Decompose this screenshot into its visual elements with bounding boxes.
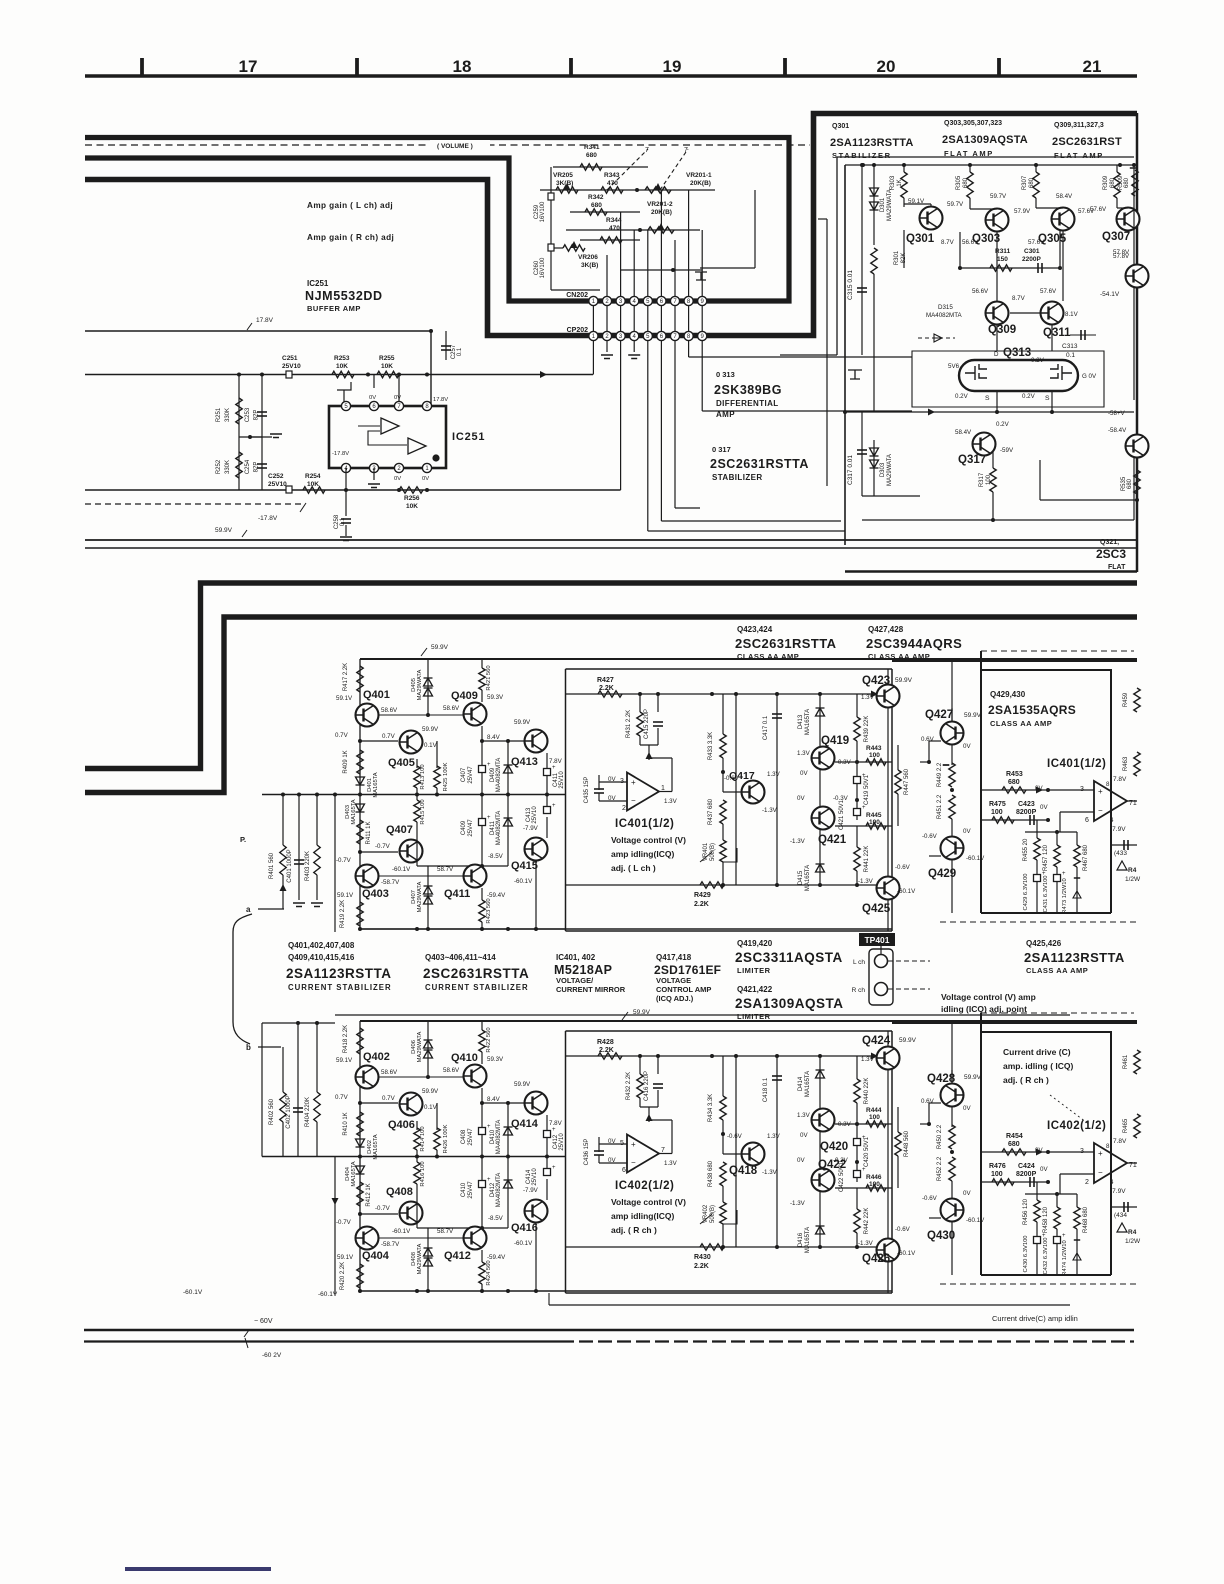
svg-text:MA29WATA: MA29WATA [417,881,423,912]
svg-text:Q427,428: Q427,428 [868,625,904,634]
svg-text:R423 560: R423 560 [486,898,492,923]
svg-text:56.6V: 56.6V [962,239,979,246]
svg-text:−: − [631,796,636,805]
op amp output wire [659,791,672,793]
sub box right edge [891,669,893,931]
svg-text:R418 2.2K: R418 2.2K [343,1025,349,1053]
R455/R457/R467 cluster [1036,1182,1038,1200]
svg-text:59.1V: 59.1V [336,1057,353,1064]
svg-text:-0.6V: -0.6V [895,1226,911,1233]
svg-text:Amp gain ( R ch) adj: Amp gain ( R ch) adj [307,233,394,242]
svg-text:Q409: Q409 [451,690,478,702]
svg-text:C313: C313 [1062,343,1078,350]
CN202 pin 7 [670,296,679,305]
R535 680 [1134,470,1140,494]
svg-text:Q403~406,411~414: Q403~406,411~414 [425,953,496,962]
svg-text:CURRENT STABILIZER: CURRENT STABILIZER [425,983,529,992]
svg-text:C402 1000P: C402 1000P [286,1095,292,1128]
svg-text:0.1: 0.1 [340,517,346,526]
CP202 pin 4 [630,331,639,340]
svg-text:Q405: Q405 [388,757,415,769]
CN202 pin 5 [643,296,652,305]
D301 MA29WATA [873,165,875,245]
svg-text:2: 2 [1085,1179,1089,1186]
svg-text:R422 560: R422 560 [486,1027,492,1052]
R449/R451 [951,708,953,765]
svg-text:500(B): 500(B) [710,1205,716,1223]
svg-text:(ICQ ADJ.): (ICQ ADJ.) [656,994,694,1003]
svg-text:-60.1V: -60.1V [966,855,985,862]
ruler tick [997,58,1001,76]
pin column wire [647,301,649,336]
D407 [427,1228,429,1291]
svg-text:0V: 0V [963,828,971,835]
svg-text:R475: R475 [989,801,1006,808]
wire x736 [735,694,737,885]
svg-text:Q419: Q419 [821,735,849,747]
svg-text:-60.1V: -60.1V [897,888,916,895]
svg-text:MA29WATA: MA29WATA [887,189,893,221]
svg-text:FLAT: FLAT [1108,564,1126,571]
svg-text:(433: (433 [1114,850,1127,857]
R447 560 [897,1124,899,1132]
svg-text:D414: D414 [798,1076,804,1091]
svg-text:59.9V: 59.9V [895,677,913,684]
sub box IC401(1/2) [566,669,893,931]
svg-text:57.6V: 57.6V [1028,239,1045,246]
svg-text:82P: 82P [254,462,260,473]
svg-text:-1.3V: -1.3V [858,1240,874,1247]
svg-text:-59V: -59V [1000,447,1014,454]
pin column wire [606,301,608,336]
R423 560 [481,888,483,900]
volume dashed diagonals [607,149,648,190]
svg-text:-59.4V: -59.4V [487,1254,506,1261]
svg-text:0.6V: 0.6V [921,736,935,743]
svg-text:-60.1V: -60.1V [392,1228,411,1235]
R423 560 [481,1250,483,1262]
pin column wire [701,301,703,336]
svg-text:25V10: 25V10 [559,1133,565,1151]
svg-text:R254: R254 [305,473,321,480]
D413 / limiters [819,1056,821,1247]
svg-text:0V: 0V [1040,804,1048,811]
R419 2.2K [357,1264,363,1288]
op amp [627,1135,659,1173]
svg-text:C315 0.01: C315 0.01 [847,270,854,300]
main vertical wire x845 [844,165,846,545]
svg-text:Q421,422: Q421,422 [737,985,773,994]
R431 2.2K / C415 220P [639,694,641,712]
Q427 [941,1084,964,1107]
svg-text:Q309: Q309 [988,324,1016,336]
bottom bus [566,1246,893,1248]
R409 1K [357,750,363,774]
gnd hook in VR box [695,272,707,280]
svg-text:0V: 0V [800,1132,808,1139]
Rch outer box top [335,1014,1070,1016]
svg-text:2SA1535AQRS: 2SA1535AQRS [988,703,1076,717]
CN202 pin 8 [684,296,693,305]
svg-text:Q404: Q404 [362,1250,390,1262]
svg-text:P.: P. [240,835,246,844]
block rails dy=362 [359,1021,361,1291]
TP401 test point [859,933,895,946]
svg-text:R455 20: R455 20 [1023,838,1029,861]
R307 680 [1035,165,1037,172]
svg-text:Q423,424: Q423,424 [737,625,773,634]
svg-text:Q408: Q408 [386,1186,413,1198]
svg-text:C252: C252 [268,473,284,480]
svg-text:R404 220K: R404 220K [305,1097,311,1127]
svg-text:+: + [552,765,556,771]
svg-text:R451 2.2: R451 2.2 [937,794,943,819]
svg-text:S: S [985,395,990,402]
svg-text:D415: D415 [798,870,804,885]
C409 / D411 [481,795,483,867]
svg-text:−: − [1098,1168,1103,1177]
svg-text:16V100: 16V100 [540,257,546,278]
svg-text:R428: R428 [597,1039,614,1046]
svg-text:IC401, 402: IC401, 402 [556,953,596,962]
svg-text:Q317: Q317 [958,454,986,466]
Q429 [941,837,964,860]
svg-text:680: 680 [1110,177,1116,188]
svg-text:R415 100: R415 100 [420,799,426,824]
svg-text:IC401(1/2): IC401(1/2) [615,818,674,830]
svg-text:470: 470 [609,225,620,232]
R449/R451 [951,1070,953,1127]
svg-text:680: 680 [1124,177,1130,188]
D303 MA29WATA [873,440,875,496]
svg-text:1.3V: 1.3V [797,750,811,757]
R301 82K [871,248,877,274]
svg-text:0.2V: 0.2V [996,421,1010,428]
dashed VOLUME link line [85,144,810,146]
wires Q-columns [996,232,998,301]
R455/R457/R467 cluster [1036,820,1038,838]
svg-text:MA165TA: MA165TA [373,772,379,797]
svg-text:0V: 0V [963,1190,971,1197]
svg-text:5V6: 5V6 [948,363,960,370]
R417 2.2K [357,1028,363,1054]
svg-text:Q411: Q411 [444,888,470,900]
svg-text:7.8V: 7.8V [1113,1138,1127,1145]
svg-text:C254: C254 [245,459,251,474]
R417 2.2K [357,666,363,692]
svg-text:amp idling(ICQ): amp idling(ICQ) [611,1211,674,1221]
svg-text:2.2K: 2.2K [694,901,709,908]
svg-text:0V: 0V [394,476,401,482]
CP202 pin 5 [643,331,652,340]
svg-text:Q403: Q403 [362,888,389,900]
svg-text:100: 100 [869,752,880,759]
svg-text:Amp gain ( L ch) adj: Amp gain ( L ch) adj [307,201,393,210]
svg-text:680: 680 [1127,478,1133,489]
sub box IC402(1/2) [566,1031,893,1293]
svg-text:C408: C408 [461,1129,467,1144]
svg-text:-0.6V: -0.6V [922,1195,938,1202]
svg-text:R252: R252 [216,459,222,474]
svg-text:0V: 0V [800,770,808,777]
bottom dots [358,927,362,931]
svg-text:R445: R445 [866,812,882,819]
svg-text:Q313: Q313 [1003,347,1031,359]
svg-text:Q303,305,307,323: Q303,305,307,323 [944,120,1002,127]
svg-text:-17.8V: -17.8V [332,451,349,457]
svg-text:82P: 82P [254,410,260,421]
svg-text:20K(B): 20K(B) [690,180,711,187]
svg-text:8200P: 8200P [1016,1171,1037,1178]
svg-text:0V: 0V [797,795,805,802]
svg-text:0.1V: 0.1V [424,742,438,749]
svg-text:MA4082MTA: MA4082MTA [926,312,963,319]
svg-text:R458 120: R458 120 [1043,1206,1049,1233]
svg-text:25V10: 25V10 [532,806,538,824]
D413 / limiters [819,694,821,885]
svg-text:25V10: 25V10 [559,771,565,789]
svg-text:R426 100K: R426 100K [443,1124,449,1153]
svg-text:Q307: Q307 [1102,231,1130,243]
svg-text:17: 17 [239,57,258,76]
right inner wire [1133,165,1135,400]
svg-text:Q401,402,407,408: Q401,402,407,408 [288,941,355,950]
svg-text:100: 100 [869,819,880,826]
svg-text:19: 19 [663,57,682,76]
svg-text:21: 21 [1083,57,1102,76]
svg-text:330K: 330K [225,408,231,422]
C419 C421 [856,1124,858,1162]
svg-text:R4: R4 [1128,1229,1137,1236]
svg-text:500(B): 500(B) [710,843,716,861]
svg-text:R412 1K: R412 1K [366,1183,372,1206]
svg-text:R443: R443 [866,745,882,752]
svg-text:Q423: Q423 [862,675,890,687]
svg-text:58.4V: 58.4V [1056,193,1073,200]
R402 560 / C402 1000P / R404 220K [282,1047,284,1092]
svg-text:10K: 10K [406,503,418,510]
svg-text:MA4082MTA: MA4082MTA [496,1173,502,1208]
svg-text:-58.7V: -58.7V [381,879,400,886]
svg-text:STABILIZER: STABILIZER [832,151,892,160]
svg-text:C301: C301 [1024,248,1040,255]
svg-text:+: + [487,762,491,768]
svg-text:680: 680 [963,177,969,188]
C257 0.1 [445,331,447,360]
svg-text:59.1V: 59.1V [337,892,354,899]
svg-text:-0.7V: -0.7V [336,857,352,864]
svg-text:R448 560: R448 560 [904,1130,910,1157]
R433 / R437 column [722,1056,724,1096]
svg-text:2SC3311AQSTA: 2SC3311AQSTA [735,950,843,965]
op-amp symbols inside IC251 [381,418,399,434]
svg-text:CP202: CP202 [567,327,589,334]
bottom line -60.2V solid part [84,1340,560,1342]
svg-text:-1.3V: -1.3V [790,838,806,845]
svg-text:MA165TA: MA165TA [805,709,811,735]
svg-text:59.9V: 59.9V [431,644,449,651]
svg-text:C419 50V1: C419 50V1 [864,774,870,805]
svg-text:R344: R344 [606,217,622,224]
svg-text:57.9V: 57.9V [1014,208,1031,215]
svg-text:a: a [246,905,251,914]
svg-text:R307: R307 [1022,175,1028,190]
svg-text:R438 680: R438 680 [708,1160,714,1187]
right column box dy=362 [981,1013,1111,1275]
svg-text:-54.1V: -54.1V [1100,291,1120,298]
svg-text:Q429,430: Q429,430 [990,690,1026,699]
svg-text:MA29WATA: MA29WATA [417,1243,423,1274]
svg-text:-60.1V: -60.1V [318,1291,338,1298]
svg-text:−: − [631,1158,636,1167]
svg-text:R301: R301 [894,250,900,265]
svg-text:-7.9V: -7.9V [523,1187,539,1194]
svg-text:2SA1123RSTTA: 2SA1123RSTTA [286,966,392,981]
svg-text:Q407: Q407 [386,824,413,836]
svg-text:R432 2.2K: R432 2.2K [626,1072,632,1100]
svg-text:59.9V: 59.9V [514,719,531,726]
svg-text:680: 680 [1008,779,1020,786]
thick signal bus B (CP202 to flat-amp block) [85,114,1137,336]
svg-text:CLASS AA AMP: CLASS AA AMP [737,652,799,661]
jfet right [1050,364,1072,380]
feedback loop [1047,1182,1049,1202]
svg-text:R403 220K: R403 220K [305,851,311,881]
svg-text:R433 3.3K: R433 3.3K [708,732,714,760]
svg-text:LIMITER: LIMITER [737,966,771,975]
svg-text:MA165TA: MA165TA [373,1134,379,1159]
svg-text:Q410: Q410 [451,1052,478,1064]
flat-amp block bottom border [845,570,1137,573]
svg-text:C415 220P: C415 220P [644,709,650,739]
svg-text:Q427: Q427 [925,709,953,721]
R305 680 [969,165,971,172]
svg-text:D315: D315 [938,304,953,311]
svg-text:680: 680 [1008,1141,1020,1148]
svg-text:Q401: Q401 [363,689,390,701]
svg-text:2SA1309AQSTA: 2SA1309AQSTA [942,134,1028,146]
svg-text:6: 6 [622,1167,626,1174]
svg-text:1.3V: 1.3V [861,694,875,701]
svg-text:C429 6.3V100: C429 6.3V100 [1023,873,1029,910]
svg-text:-58.7V: -58.7V [381,1241,400,1248]
svg-text:2SC2631RSTTA: 2SC2631RSTTA [710,457,809,471]
Q419 Q421 [812,747,835,770]
separator line 1 [85,539,1137,541]
C258 0.1 [345,490,347,516]
svg-text:1K: 1K [897,179,903,186]
svg-text:( VOLUME ): ( VOLUME ) [437,143,473,150]
Q423/Q425 right [891,669,893,694]
svg-text:-7.9V: -7.9V [1110,826,1126,833]
svg-text:CLASS AA AMP: CLASS AA AMP [1026,966,1088,975]
svg-text:R453: R453 [1006,771,1023,778]
C407 / D409 [481,741,483,795]
svg-text:MA29WATA: MA29WATA [887,454,893,486]
Q311 [1041,302,1064,325]
svg-text:R420 2.2K: R420 2.2K [340,1262,346,1290]
svg-text:+: + [552,1165,556,1171]
ruler tick [783,58,787,76]
R431 2.2K / C415 220P [639,1056,641,1074]
svg-text:58.6V: 58.6V [443,705,460,712]
Rch top rail 59.9V [360,1020,1137,1022]
svg-text:-60.1V: -60.1V [392,866,411,873]
Q317 [973,433,996,456]
svg-text:25V47: 25V47 [468,819,474,837]
svg-text:8.7V: 8.7V [941,239,955,246]
svg-text:R461: R461 [1123,1054,1129,1069]
svg-text:2SA1123RSTTA: 2SA1123RSTTA [830,137,914,149]
svg-text:1.3V: 1.3V [797,1112,811,1119]
collector bend wires [904,203,931,205]
svg-text:100: 100 [986,474,992,485]
Q303 [986,209,1009,232]
svg-text:Q416: Q416 [511,1222,538,1234]
svg-text:25V47: 25V47 [468,1128,474,1146]
R425 100K [436,741,438,768]
svg-text:R409 1K: R409 1K [343,750,349,773]
svg-text:Q417,418: Q417,418 [656,953,692,962]
svg-text:+: + [1098,787,1103,796]
svg-text:R424 560: R424 560 [486,1260,492,1285]
svg-text:DIFFERENTIAL: DIFFERENTIAL [716,399,779,408]
R401 560 / C401 1000P / R403 220K [282,795,284,846]
Q427 [941,722,964,745]
Q307 [1117,208,1140,231]
svg-text:17.8V: 17.8V [433,397,448,403]
svg-text:C253: C253 [245,407,251,422]
inner left vertical wire [826,219,828,486]
svg-text:58.6V: 58.6V [381,707,398,714]
svg-text:MA165TA: MA165TA [805,1071,811,1097]
CP202 pin 3 [616,331,625,340]
svg-text:FLAT AMP: FLAT AMP [1054,151,1104,160]
svg-text:0V: 0V [963,1105,971,1112]
svg-text:C410: C410 [461,1182,467,1197]
svg-text:0.7V: 0.7V [382,1095,396,1102]
svg-text:R473 1/2W10: R473 1/2W10 [1062,878,1068,913]
mid rail Rch [262,1156,566,1158]
svg-text:+: + [487,1177,491,1183]
thick signal bus loop A (CN202) [85,138,789,302]
svg-text:R411 1K: R411 1K [366,822,372,845]
svg-text:0.2V: 0.2V [1031,357,1045,364]
svg-text:MA165TA: MA165TA [805,1227,811,1253]
R317 100 [992,452,994,468]
svg-text:16V100: 16V100 [540,201,546,222]
svg-text:59.9V: 59.9V [422,1088,439,1095]
svg-text:+: + [487,1124,491,1130]
svg-text:C317 0.01: C317 0.01 [847,455,854,485]
svg-text:Q412: Q412 [444,1250,471,1262]
block rails dy=0 [359,659,361,929]
svg-text:58.7V: 58.7V [437,866,454,873]
svg-text:25V10: 25V10 [282,363,301,370]
svg-text:C436 15P: C436 15P [584,1139,590,1166]
svg-text:MA4082MTA: MA4082MTA [496,811,502,846]
svg-text:BUFFER AMP: BUFFER AMP [307,304,361,313]
svg-text:R446: R446 [866,1174,882,1181]
svg-text:CN202: CN202 [566,292,588,299]
svg-text:R253: R253 [334,355,350,362]
svg-text:R429: R429 [694,892,711,899]
svg-text:59.1V: 59.1V [336,695,353,702]
svg-text:+: + [552,1127,556,1133]
svg-text:-0.7V: -0.7V [375,843,391,850]
svg-text:680: 680 [586,152,597,159]
svg-text:L ch: L ch [853,959,865,966]
